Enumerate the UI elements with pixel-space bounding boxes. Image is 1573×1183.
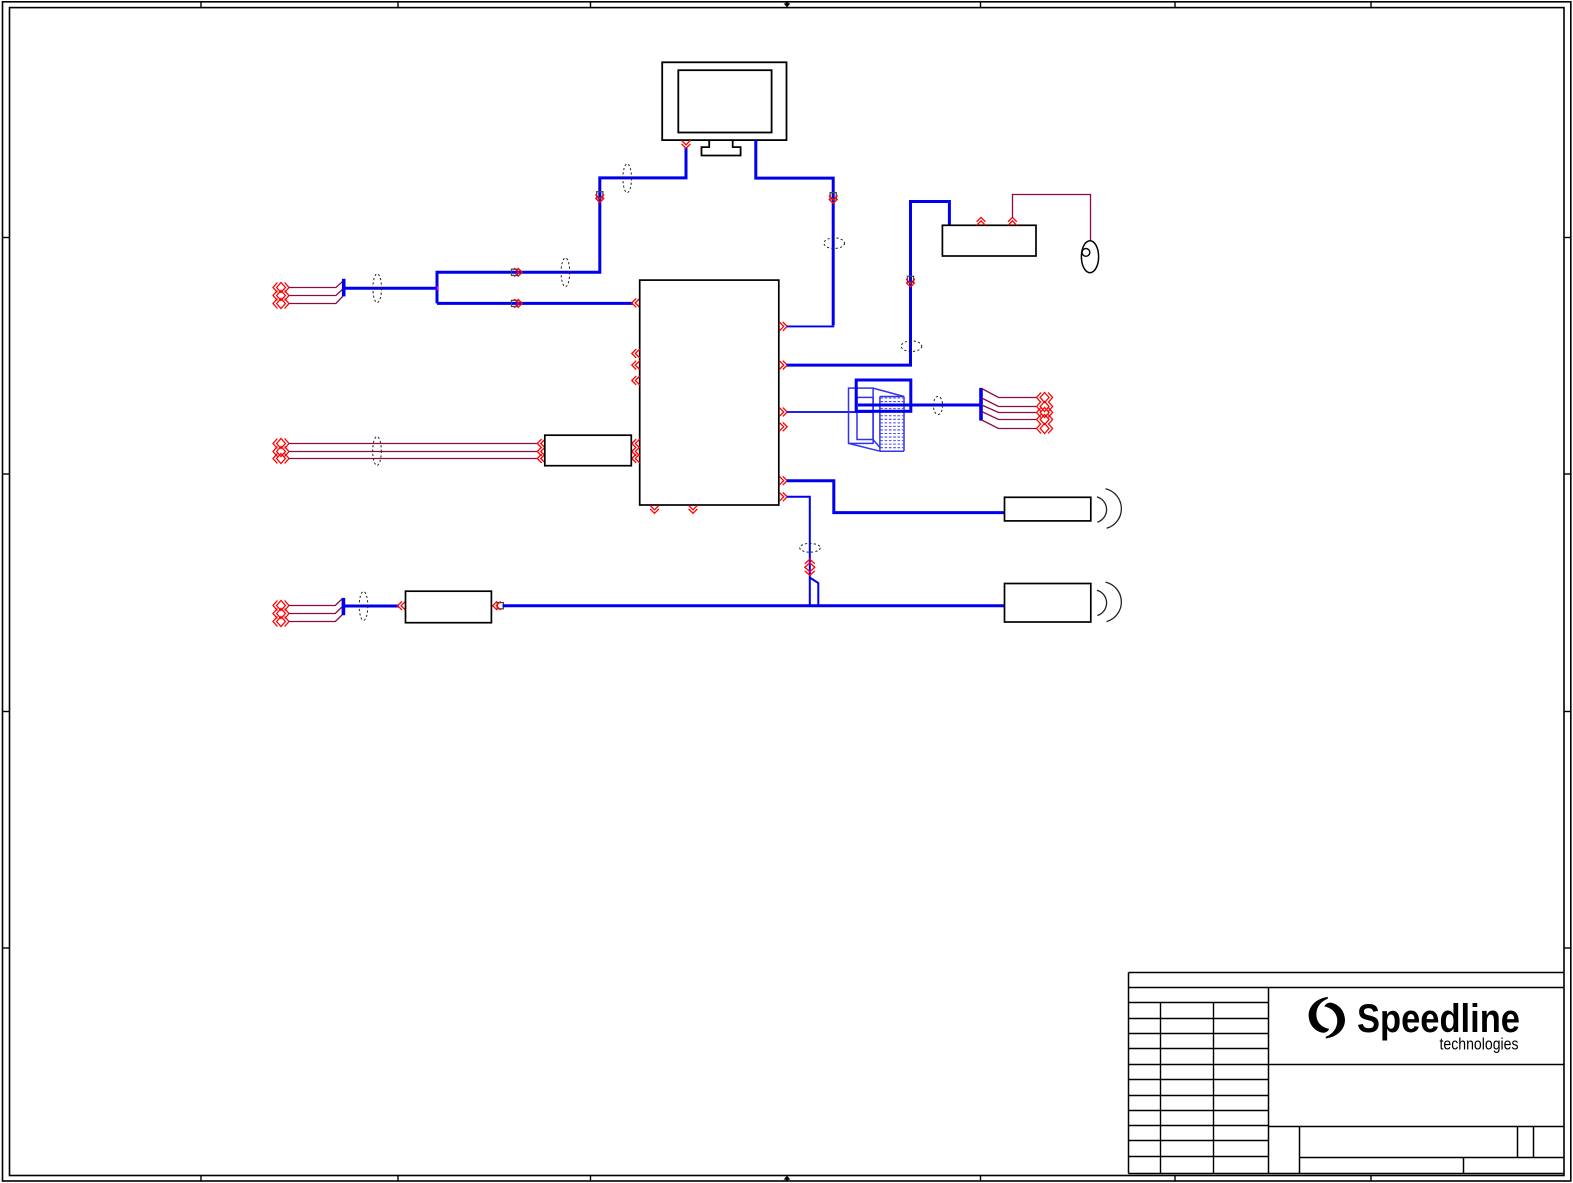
cable loop ellipse bbox=[359, 592, 368, 621]
cable bundle end diamonds (right fan) bbox=[1037, 393, 1053, 434]
trunk wire to junction bbox=[345, 287, 438, 290]
fan-out wires (maroon) bbox=[982, 389, 1037, 429]
pin chevron monitor bottom bbox=[682, 140, 691, 148]
cable loop ellipse bbox=[373, 437, 382, 466]
wire control unit to interface box bbox=[787, 202, 950, 366]
wire junction vertical bbox=[436, 271, 439, 304]
title block frame bbox=[1129, 973, 1565, 1174]
svg-text:technologies: technologies bbox=[1440, 1035, 1519, 1053]
monitor display unit bbox=[662, 62, 786, 155]
splice collector bar bbox=[342, 279, 346, 297]
module rectangle overlay bbox=[856, 380, 911, 411]
wire lower branch to control unit bbox=[437, 302, 633, 305]
3D frame core symbol bbox=[849, 388, 905, 451]
pin chevrons control unit left side bbox=[632, 349, 640, 463]
control unit main box bbox=[640, 280, 779, 505]
speaker box 2 bbox=[1005, 584, 1091, 623]
speaker 1 sound arcs bbox=[1097, 489, 1121, 529]
wire box B to speaker 2 bbox=[503, 604, 1005, 607]
cable loop ellipse bbox=[373, 274, 382, 303]
inline connector bbox=[829, 193, 838, 204]
mid cable wires (maroon) bbox=[289, 444, 538, 459]
cable bundle end diamonds (top-left) bbox=[273, 283, 289, 309]
revision table bbox=[1129, 1003, 1269, 1174]
cable end double-diamond bbox=[805, 559, 815, 575]
wire monitor left pin to junction bbox=[437, 148, 686, 273]
cable loop ellipse bbox=[901, 341, 922, 352]
pin chevron box B left bbox=[398, 601, 406, 610]
pin chevrons control unit right side bbox=[779, 322, 787, 501]
inline connector box B right bbox=[493, 601, 504, 610]
inline connector on vertical wire bbox=[595, 192, 604, 203]
splice collector bar (right fan) bbox=[979, 388, 983, 421]
bundle wires (maroon) bbox=[289, 599, 343, 622]
cable loop ellipse bbox=[561, 258, 570, 287]
inline connector on upper branch bbox=[511, 268, 522, 277]
title block right cells bbox=[1269, 1065, 1565, 1174]
cable bundle end diamonds (mid-left) bbox=[273, 439, 289, 464]
inline connector bbox=[906, 276, 915, 287]
inline box B bbox=[406, 591, 492, 623]
mouse symbol bbox=[1081, 241, 1098, 273]
Speedline logo text bbox=[1357, 997, 1520, 1041]
wire control unit to speaker 1 bbox=[787, 481, 1005, 513]
speaker box 1 bbox=[1005, 497, 1091, 521]
cable loop ellipse bbox=[800, 543, 821, 552]
speaker 2 sound arcs bbox=[1097, 582, 1121, 622]
cable bundle end diamonds (bottom-left) bbox=[273, 601, 289, 627]
bundle wires (maroon) bbox=[289, 281, 343, 303]
pin chevrons interface box top bbox=[977, 217, 1017, 225]
inline box A bbox=[545, 435, 632, 466]
pin chevron control unit left pin 1 bbox=[632, 299, 640, 308]
cable loop ellipse bbox=[623, 164, 632, 193]
inline connector on lower branch bbox=[511, 299, 522, 308]
cable loop ellipse bbox=[824, 238, 845, 249]
wire interface box to mouse (maroon) bbox=[1013, 195, 1091, 242]
cable loop ellipse bbox=[933, 396, 942, 414]
interface box bbox=[942, 225, 1036, 256]
wire control unit to speaker 2 bbox=[787, 497, 819, 607]
junction dot bbox=[435, 286, 439, 290]
pin chevrons control unit bottom bbox=[650, 505, 697, 513]
Speedline logo mark bbox=[1309, 997, 1345, 1039]
technologies logo text bbox=[1440, 1035, 1519, 1053]
wire module output bbox=[858, 404, 981, 407]
trunk wire to box B bbox=[344, 605, 399, 608]
splice collector bar bbox=[342, 598, 346, 615]
pin chevrons inline box A left bbox=[537, 439, 545, 463]
wire monitor right pin to control unit bbox=[756, 140, 834, 326]
wire control unit to module (thin) bbox=[787, 411, 873, 413]
